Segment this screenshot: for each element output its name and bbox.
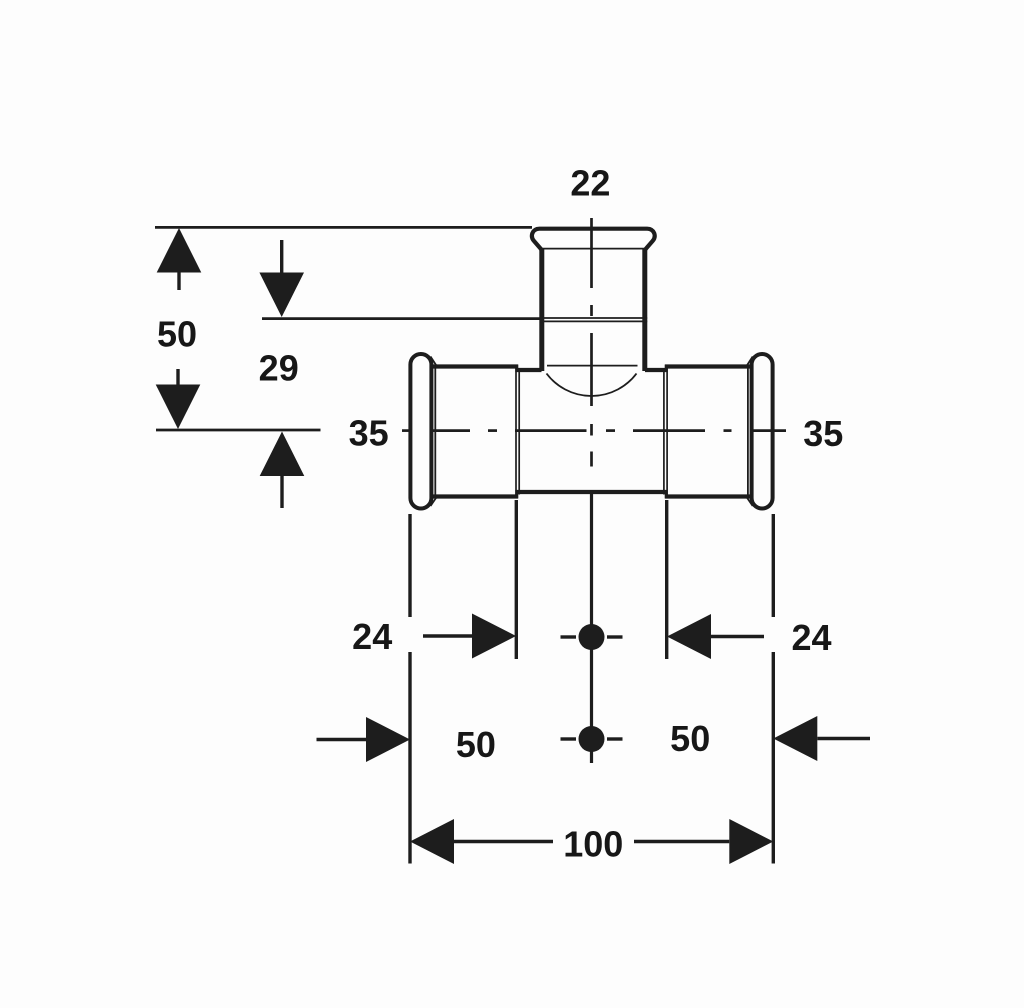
node: center mark upper dot: [579, 624, 605, 650]
dimension 50 bottom-left arrow: [317, 738, 368, 741]
tee fitting: branch-body junction line: [547, 365, 638, 367]
wire: middle reference line (socket depth level): [262, 317, 540, 320]
extension line: left outer (x=410): [408, 514, 411, 617]
tee fitting: right socket mouth line: [747, 365, 749, 498]
centerline: branch vertical dash-dot: [590, 218, 593, 467]
tee fitting: left press bead capsule: [410, 354, 431, 509]
dimension 50 down-arrow: [156, 385, 201, 430]
svg-text:29: 29: [259, 348, 299, 389]
dimension 29/35 up-arrow: [260, 432, 305, 477]
svg-text:50: 50: [157, 314, 197, 355]
tee fitting: right press bead capsule: [752, 354, 773, 509]
node: center mark lower dot: [579, 726, 605, 752]
dimension 24 left arrow: [423, 634, 473, 637]
tee fitting: branch bell transition line: [543, 248, 645, 250]
extension line: left inner (x=516.3): [515, 500, 518, 659]
tee fitting: left socket outer edges: [432, 364, 518, 368]
svg-text:24: 24: [352, 616, 392, 657]
svg-text:35: 35: [803, 413, 843, 454]
extension line: right inner (x=666.7): [665, 500, 668, 659]
dimension 100 right arrow: [729, 819, 773, 864]
dimension 29 down-arrow: [259, 273, 304, 318]
svg-text:22: 22: [570, 163, 610, 204]
extension line: center vertical: [590, 494, 593, 763]
tee fitting: body outer edges: [516, 368, 542, 372]
wire: top reference line (bell top level): [155, 226, 532, 229]
dimension 24 right arrow: [710, 635, 764, 638]
svg-text:50: 50: [670, 718, 710, 759]
tee fitting: left socket depth double line: [515, 369, 517, 495]
dimension 50 up-arrow: [157, 228, 202, 273]
tee fitting: socket step connectors: [515, 365, 518, 373]
tee fitting: bore arc: [547, 374, 637, 396]
dimension 100 left arrow: [410, 819, 454, 864]
tee fitting: right bead taper: [746, 357, 753, 367]
tee fitting: left bead taper: [431, 357, 438, 367]
tee fitting: branch bell mouth: [532, 229, 655, 250]
wire: centerline reference (35 level, left): [156, 429, 321, 432]
tee fitting: right socket outer edges: [665, 364, 751, 368]
tee fitting: branch tube walls: [539, 248, 544, 371]
tee fitting: branch socket depth double line: [540, 317, 648, 319]
tee fitting: right socket depth double line: [663, 369, 665, 495]
svg-text:35: 35: [349, 413, 389, 454]
dimension 50 bottom-right arrow: [817, 737, 870, 740]
svg-text:24: 24: [791, 617, 831, 658]
tee fitting: left socket mouth line: [434, 365, 436, 498]
extension line: right outer (x=773.3): [772, 514, 775, 617]
svg-text:50: 50: [456, 724, 496, 765]
centerline: body horizontal dash-dot: [402, 429, 786, 432]
svg-text:100: 100: [563, 824, 623, 865]
